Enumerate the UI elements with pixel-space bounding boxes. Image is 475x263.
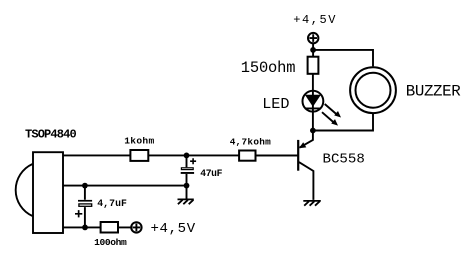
svg-text:BC558: BC558 (323, 151, 365, 167)
svg-text:100ohm: 100ohm (94, 237, 127, 248)
svg-text:TSOP4840: TSOP4840 (25, 128, 76, 142)
svg-text:4,7uF: 4,7uF (97, 198, 127, 209)
svg-text:150ohm: 150ohm (241, 59, 296, 77)
svg-text:LED: LED (262, 95, 289, 113)
svg-text:+4,5V: +4,5V (151, 221, 196, 237)
svg-text:BUZZER: BUZZER (406, 83, 461, 101)
svg-text:1kohm: 1kohm (124, 136, 154, 147)
svg-text:4,7kohm: 4,7kohm (230, 136, 271, 147)
svg-text:+4,5V: +4,5V (293, 13, 337, 27)
svg-text:47uF: 47uF (200, 168, 222, 179)
